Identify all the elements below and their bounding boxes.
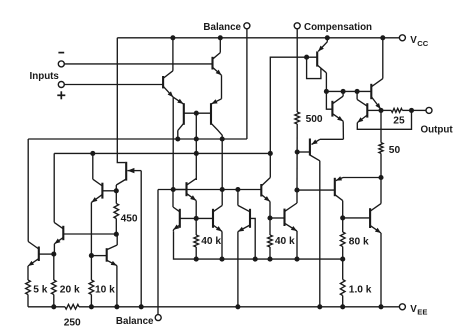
transistor Q13 bbox=[238, 205, 250, 231]
wire R6 bottom bbox=[195, 247, 197, 259]
svg-text:EE: EE bbox=[417, 308, 427, 317]
wire Q3-Q4 base tie bbox=[184, 112, 211, 114]
terminal Compensation bbox=[294, 23, 300, 29]
node Q19 collector bbox=[355, 89, 360, 94]
resistor R3 10k bbox=[89, 280, 94, 295]
node Q12 emitter on rail bbox=[219, 257, 224, 262]
wire Q13 emitter drop bbox=[237, 232, 239, 307]
svg-text:V: V bbox=[410, 304, 417, 315]
label Balance top bbox=[203, 22, 241, 33]
wire R12 lead bottom bbox=[380, 153, 382, 177]
wire Q5 collector riser bbox=[27, 139, 29, 242]
transistor Q19 bbox=[357, 99, 367, 122]
wire emitter degeneration rail bbox=[174, 231, 343, 259]
wire Q19 base bbox=[367, 109, 381, 111]
svg-text:80 k: 80 k bbox=[349, 236, 369, 247]
wire Q13 base bbox=[250, 218, 255, 259]
node R3 at VEE bbox=[89, 304, 94, 309]
wire Q21 base bbox=[343, 217, 370, 219]
node R9 at VEE bbox=[340, 304, 345, 309]
wire Q20 emitter wire bbox=[343, 177, 381, 179]
label plus bbox=[57, 91, 65, 99]
wire R3 bottom bbox=[90, 295, 92, 307]
node R2 at VEE bbox=[51, 304, 56, 309]
wire Q8 collector riser bbox=[116, 234, 118, 245]
terminal Balance top bbox=[244, 23, 250, 29]
wire balance(bottom) riser bbox=[157, 190, 159, 315]
transistor Q20 bbox=[335, 176, 343, 200]
svg-text:10 k: 10 k bbox=[95, 284, 115, 295]
wire Q12 collector riser bbox=[221, 190, 223, 206]
node Q13 emitter at VEE bbox=[235, 304, 240, 309]
wire Q16 collector drop bbox=[319, 161, 321, 307]
wire VCC rail left drop to Q9 base bbox=[117, 38, 125, 163]
wire compensation column lower bbox=[296, 124, 298, 190]
label VEE bbox=[410, 304, 427, 317]
transistor Q21 bbox=[370, 204, 381, 233]
node Q5 base / Q6 emitter bbox=[51, 252, 56, 257]
wire R12 lead top bbox=[380, 110, 382, 142]
node 10k top bbox=[89, 253, 94, 258]
wire R7 lead bbox=[269, 218, 271, 235]
transistor Q7 bbox=[91, 179, 102, 202]
node Q17 collector at VCC bbox=[380, 35, 385, 40]
transistor Q1 bbox=[163, 71, 173, 97]
svg-text:250: 250 bbox=[64, 317, 81, 328]
wire Q12 emitter drop bbox=[221, 231, 223, 259]
node Q7 collector on rail2 bbox=[90, 151, 95, 156]
wire Q7 emitter column bbox=[90, 202, 92, 255]
resistor R12 50 bbox=[379, 143, 383, 154]
resistor R9 1k bbox=[340, 280, 345, 296]
wire to output terminal bbox=[412, 109, 427, 111]
node R8 on rail bbox=[340, 257, 345, 262]
svg-text:40 k: 40 k bbox=[201, 236, 221, 247]
transistor Q16 bbox=[310, 139, 320, 161]
node Q1 collector at VCC bbox=[170, 35, 175, 40]
wire Q6 base bbox=[63, 233, 116, 235]
wire 20k column bbox=[53, 254, 55, 280]
wire Q15 base node bbox=[270, 57, 306, 177]
wire R5 lead bottom bbox=[115, 219, 117, 235]
resistor R6 40k bbox=[194, 235, 199, 247]
wire VEE rail left bbox=[28, 306, 65, 308]
label R1 5k bbox=[33, 284, 47, 295]
wire Q14 collector riser bbox=[296, 190, 298, 203]
node output node bbox=[409, 108, 414, 113]
svg-text:Balance: Balance bbox=[203, 22, 241, 33]
wire R1 bottom bbox=[27, 295, 29, 307]
wire first-stage node rail bbox=[28, 138, 247, 140]
svg-text:50: 50 bbox=[389, 145, 401, 156]
svg-text:V: V bbox=[410, 35, 417, 46]
node Q15 emitter at VCC bbox=[325, 35, 330, 40]
node base tie on rail1 bbox=[194, 136, 199, 141]
resistor R10 500 bbox=[295, 112, 300, 124]
node Q14 emitter on rail bbox=[294, 257, 299, 262]
wire Q9 collector drop bbox=[115, 185, 117, 191]
transistor Q14 bbox=[285, 203, 298, 231]
wire Q2 collector bbox=[219, 38, 221, 53]
node Q9 emitter at VEE bbox=[139, 304, 144, 309]
node Q3-Q4 base bbox=[194, 111, 199, 116]
wire Q10 base bbox=[173, 189, 186, 191]
node second stage node A bbox=[220, 187, 225, 192]
svg-text:40 k: 40 k bbox=[275, 236, 295, 247]
svg-text:5 k: 5 k bbox=[33, 284, 47, 295]
resistor R7 40k bbox=[268, 235, 273, 247]
wire Q15 diode loop bbox=[307, 57, 321, 78]
terminal VCC bbox=[399, 35, 405, 41]
wire R8 bottom bbox=[342, 247, 344, 260]
wire non-inverting input to Q1 base bbox=[64, 84, 163, 86]
wire second-stage base node left bbox=[158, 189, 261, 191]
label R4 250 bbox=[64, 317, 81, 328]
wire Q3 collector bbox=[177, 131, 179, 140]
node compensation node bbox=[294, 188, 299, 193]
transistor Q11 bbox=[173, 207, 180, 230]
transistor Q15 bbox=[317, 42, 327, 73]
wire Q19 emitter loop bbox=[357, 110, 411, 129]
wire Q7 collector riser bbox=[92, 153, 94, 179]
node base tie on rail2 bbox=[194, 151, 199, 156]
svg-text:Inputs: Inputs bbox=[30, 71, 60, 82]
label Compensation bbox=[304, 22, 372, 33]
label R8 80k bbox=[349, 236, 369, 247]
resistor R5 450 bbox=[114, 204, 119, 219]
wire Q11 base bbox=[180, 217, 196, 219]
label R9 1k bbox=[349, 285, 372, 296]
wire R9 lead top bbox=[342, 259, 344, 279]
wire Q15 emitter stub bbox=[326, 38, 328, 42]
wire Q7 base bbox=[102, 190, 116, 192]
terminal non-inverting input bbox=[58, 82, 64, 88]
wire Q19 collector riser bbox=[356, 91, 358, 99]
label VCC bbox=[410, 35, 428, 48]
node Q21 base node bbox=[340, 215, 345, 220]
wire Q12 base bbox=[196, 217, 213, 219]
svg-text:CC: CC bbox=[417, 39, 428, 48]
wire Q21 emitter drop bbox=[380, 233, 382, 307]
svg-text:Balance: Balance bbox=[116, 316, 154, 327]
terminal inverting input bbox=[58, 61, 64, 67]
node Q18 collector bbox=[341, 89, 346, 94]
svg-text:Compensation: Compensation bbox=[304, 22, 372, 33]
node Q10 base bbox=[171, 187, 176, 192]
wire output bias rail bbox=[326, 90, 371, 92]
node Q4 collector on rail bbox=[220, 136, 225, 141]
svg-text:20 k: 20 k bbox=[60, 284, 80, 295]
wire compensation column upper bbox=[296, 29, 298, 112]
wire Q18 base bbox=[326, 91, 332, 109]
wire Q8 base bbox=[91, 255, 106, 257]
transistor Q10 bbox=[187, 178, 197, 200]
wire Q6 emitter drop bbox=[53, 244, 55, 254]
transistor Q8 bbox=[107, 245, 118, 266]
label R7 40k bbox=[275, 236, 295, 247]
wire inverting input to Q2 base bbox=[64, 63, 212, 65]
wire Q5 base / Q6 emitter node bbox=[39, 253, 54, 255]
wire R5 lead bbox=[115, 191, 117, 204]
wire Q18 collector riser bbox=[342, 91, 344, 96]
node comp at Q16 base stub bbox=[295, 149, 300, 154]
transistor Q17 bbox=[371, 79, 383, 109]
node R7 on rail bbox=[267, 257, 272, 262]
wire Q5 emitter to R1 bbox=[27, 266, 29, 280]
label R10 500 bbox=[306, 114, 323, 125]
node Q13 collector node bbox=[235, 187, 240, 192]
transistor Q18 bbox=[332, 96, 343, 121]
wire R7 bottom bbox=[269, 247, 271, 259]
wire Q21 collector riser bbox=[380, 178, 382, 204]
label Balance bottom bbox=[116, 316, 154, 327]
node R5 bottom bbox=[114, 232, 119, 237]
label R12 50 bbox=[389, 145, 401, 156]
wire base tie column bbox=[195, 113, 197, 180]
node Q15 base bbox=[304, 55, 309, 60]
node Q21 emitter at VEE bbox=[378, 304, 383, 309]
resistor R2 20k bbox=[51, 280, 56, 295]
wire Q10 emitter / R6 top bbox=[195, 201, 197, 235]
wire Q9 emitter drop bbox=[140, 171, 142, 307]
wire second-stage node right bbox=[297, 189, 335, 191]
resistor R1 5k bbox=[26, 280, 31, 295]
wire Q16 base stub bbox=[297, 151, 310, 153]
transistor Q9 bbox=[116, 162, 141, 185]
label Output bbox=[421, 125, 454, 136]
wire Q8 emitter drop bbox=[116, 266, 118, 307]
label R11 25 bbox=[393, 115, 405, 126]
terminal VEE bbox=[399, 304, 405, 310]
wire Q11 emitter bbox=[172, 230, 174, 231]
node R7 top bbox=[267, 215, 272, 220]
wire balance(top) drop bbox=[246, 29, 248, 139]
label minus bbox=[58, 52, 64, 54]
wire Q22 emitter drop bbox=[269, 202, 271, 219]
transistor Q4 bbox=[211, 99, 222, 139]
label Inputs bbox=[30, 71, 60, 82]
wire Q14 emitter drop bbox=[296, 231, 298, 259]
transistor Q5 bbox=[28, 242, 39, 267]
node rail2 at Q22 collector column bbox=[268, 151, 273, 156]
terminal Output bbox=[426, 107, 432, 113]
svg-text:Output: Output bbox=[421, 125, 454, 136]
resistor R4 250 bbox=[65, 304, 79, 309]
node R6 on emitter rail bbox=[194, 257, 199, 262]
transistor Q6 bbox=[54, 222, 63, 243]
node output bias node bbox=[324, 89, 329, 94]
transistor Q12 bbox=[213, 205, 222, 231]
svg-text:500: 500 bbox=[306, 114, 323, 125]
wire Q1 collector bbox=[172, 38, 174, 71]
wire R2 bottom bbox=[53, 295, 55, 307]
node Q16 collector at VEE bbox=[317, 304, 322, 309]
wire Q16 emitter wire bbox=[320, 138, 344, 140]
wire Q17 collector riser bbox=[382, 38, 384, 79]
label R2 20k bbox=[60, 284, 80, 295]
svg-text:25: 25 bbox=[393, 115, 405, 126]
node Q2 collector at VCC bbox=[218, 35, 223, 40]
wire VCC rail bbox=[117, 37, 399, 39]
node Q13 base on rail bbox=[253, 257, 258, 262]
wire Q13 collector riser bbox=[237, 190, 239, 206]
wire Q18 emitter drop bbox=[342, 121, 344, 139]
svg-text:450: 450 bbox=[121, 213, 138, 224]
wire VEE rail right bbox=[79, 306, 400, 308]
label R5 450 bbox=[121, 213, 138, 224]
wire Q2 emitter column bbox=[221, 75, 223, 99]
terminal Balance bottom bbox=[155, 315, 161, 321]
node mirror base node bbox=[194, 216, 199, 221]
wire Q15 base stub bbox=[307, 56, 318, 58]
node Q3 collector on rail bbox=[175, 136, 180, 141]
wire mirror collector rail bbox=[54, 152, 270, 154]
wire Q6 collector riser bbox=[53, 153, 55, 222]
node Q8 emitter at VEE bbox=[114, 304, 119, 309]
transistor Q2 bbox=[213, 53, 222, 76]
wire R11 lead left bbox=[381, 109, 391, 111]
svg-text:1.0 k: 1.0 k bbox=[349, 285, 372, 296]
wire Q11 collector riser bbox=[172, 190, 174, 208]
resistor R11 25 bbox=[391, 108, 402, 112]
label R3 10k bbox=[95, 284, 115, 295]
wire Q17 emitter stub bbox=[380, 109, 382, 110]
wire Q1 emitter column bbox=[172, 97, 174, 189]
wire Q14 base bbox=[270, 217, 285, 219]
wire 10k column bbox=[90, 256, 92, 280]
wire Q15 collector drop bbox=[325, 73, 327, 92]
resistor R8 80k bbox=[340, 232, 345, 247]
wire Q20 collector drop bbox=[342, 201, 344, 232]
node R5 top bbox=[114, 188, 119, 193]
label R6 40k bbox=[201, 236, 221, 247]
transistor Q22 bbox=[261, 178, 270, 202]
wire Q4 collector drop bbox=[221, 139, 223, 190]
transistor Q3 bbox=[173, 97, 184, 130]
node Q17 emitter node bbox=[378, 108, 383, 113]
wire R11 lead right bbox=[402, 109, 411, 111]
wire R9 bottom bbox=[342, 296, 344, 307]
node Q20 emitter node bbox=[378, 175, 383, 180]
